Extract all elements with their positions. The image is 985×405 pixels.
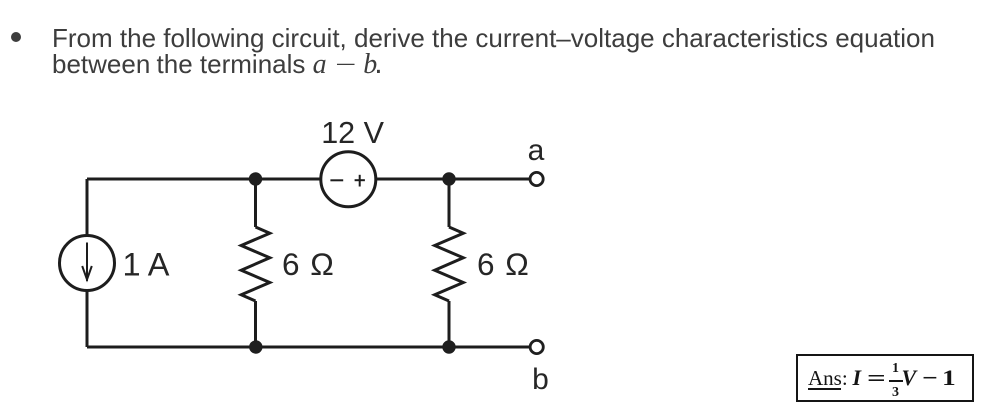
wire right branch lower: [448, 301, 451, 347]
terminal a open circle: [530, 172, 543, 185]
voltage source V1 circle: [321, 152, 376, 207]
wire top right segment (voltage source to terminal a): [376, 178, 530, 181]
wire left branch upper: [86, 179, 89, 236]
current source I1 circle: [60, 236, 115, 291]
svg-text:1 A: 1 A: [123, 247, 170, 283]
wire middle branch lower: [254, 301, 257, 347]
wire right branch upper: [448, 179, 451, 227]
svg-text:a: a: [528, 134, 545, 167]
fraction 1/3: [889, 362, 902, 376]
answer box: [796, 354, 974, 403]
wire top left segment (node to voltage source): [87, 178, 321, 181]
node junction bottom middle: [249, 340, 262, 353]
svg-text:b: b: [532, 363, 549, 396]
svg-text:6 Ω: 6 Ω: [282, 246, 335, 282]
node junction top right: [442, 172, 455, 185]
resistor R2: [435, 227, 464, 301]
wire middle branch upper: [254, 179, 257, 227]
wire bottom: [87, 346, 530, 349]
svg-text:12 V: 12 V: [321, 116, 384, 150]
voltage source polarity marks: [330, 175, 365, 187]
question text: [52, 25, 972, 78]
bullet: [11, 32, 21, 42]
wire left branch lower: [86, 291, 89, 348]
current source arrow: [82, 243, 92, 282]
Ans underline: [808, 388, 841, 390]
terminal b open circle: [530, 340, 543, 353]
node junction top middle: [249, 172, 262, 185]
node junction bottom right: [442, 340, 455, 353]
resistor R1: [241, 227, 270, 301]
svg-text:6 Ω: 6 Ω: [477, 246, 530, 282]
